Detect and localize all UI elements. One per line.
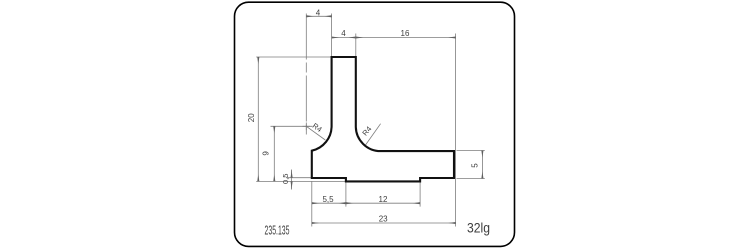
svg-text:16: 16 — [401, 29, 410, 38]
extension line stem left edge (top) — [331, 14, 333, 57]
extension line 9-dim at fillet center level — [271, 125, 313, 127]
leader R4 left — [306, 126, 325, 140]
fillet center cross — [303, 123, 311, 131]
svg-text:5,5: 5,5 — [322, 195, 334, 204]
svg-text:235.135: 235.135 — [265, 223, 290, 237]
dim line 4 (stem width) — [332, 37, 356, 39]
profile outline — [312, 57, 454, 181]
dim 0,5 outside arrow bottom — [291, 181, 293, 189]
leader R4 right — [365, 124, 381, 146]
dim line 5 (right) — [481, 151, 483, 179]
dim line 4 (top) — [306, 15, 331, 17]
svg-text:4: 4 — [316, 9, 321, 18]
dim line 12 — [346, 202, 420, 204]
extension line stem top going left — [256, 56, 331, 58]
dim line 0,5 through line — [291, 170, 293, 190]
extension line step right down — [419, 182, 421, 206]
card border — [235, 2, 515, 246]
dim 0,5 outside arrow top — [291, 170, 293, 178]
svg-text:0,5: 0,5 — [281, 174, 290, 184]
svg-text:20: 20 — [247, 113, 256, 122]
extension line upper bottom (0,5 dim) — [286, 177, 312, 179]
svg-text:9: 9 — [261, 151, 270, 156]
dim line 20 — [257, 57, 259, 181]
extension line base bottom going right (5 dim) — [457, 178, 485, 180]
svg-text:4: 4 — [341, 29, 346, 38]
extension line profile bottom-left down — [311, 181, 313, 226]
svg-text:32lg: 32lg — [467, 221, 490, 236]
dim line 5,5 — [312, 202, 346, 204]
extension line lower bottom going left — [256, 180, 346, 182]
dim line 16 — [356, 37, 456, 39]
svg-text:12: 12 — [379, 195, 388, 204]
centerline through left fillet center — [305, 14, 307, 137]
extension line stem right edge (top) — [355, 34, 357, 57]
dim line 23 — [312, 222, 456, 224]
dim line 9 — [273, 126, 275, 181]
svg-text:23: 23 — [379, 215, 388, 224]
extension line step left down — [345, 182, 347, 206]
svg-text:5: 5 — [471, 163, 480, 168]
extension line base top going right (5 dim) — [457, 150, 485, 152]
extension line base right (long vertical) — [455, 34, 457, 227]
